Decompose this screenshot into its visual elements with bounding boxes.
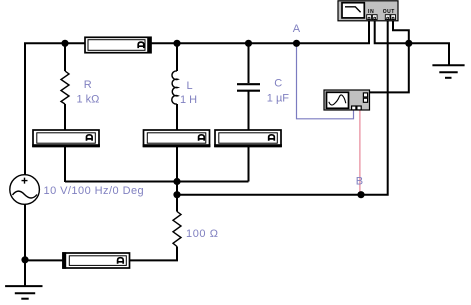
wire: bottom rail right segment xyxy=(130,247,177,261)
junction dot (R top) xyxy=(61,40,68,47)
svg-text:100 Ω: 100 Ω xyxy=(186,228,219,240)
wire: R branch top xyxy=(64,43,66,71)
bode terminal IN+ xyxy=(367,15,372,20)
ammeter top (horizontal, bar right) xyxy=(85,37,151,54)
wire: C branch top xyxy=(248,43,250,83)
ac source V1 xyxy=(10,175,40,205)
scope terminal right top xyxy=(363,93,367,97)
bode terminal OUT- xyxy=(391,15,396,20)
wire: lower bus joining R,L,C branches xyxy=(65,181,249,183)
wire: bottom rail left segment xyxy=(25,259,63,261)
wire: R branch ammeter to bus xyxy=(64,147,66,183)
junction dot (node A) xyxy=(293,40,300,47)
svg-text:1 kΩ: 1 kΩ xyxy=(77,93,100,105)
ground (right) xyxy=(432,65,464,78)
wire: Bode IN- down to right ground rail xyxy=(375,20,449,65)
wire: left lower vertical from source to bottom rail xyxy=(24,204,26,260)
resistor R xyxy=(61,71,69,104)
wire: pink scope channel B down to node B xyxy=(359,110,361,195)
bode terminal IN- xyxy=(372,15,377,20)
wire: node B net from 100 ohm junction right and up to Bode OUT+ xyxy=(177,20,388,195)
junction dot (ground rail / scope) xyxy=(405,40,412,47)
inductor L xyxy=(172,71,178,104)
junction dot (L top) xyxy=(173,40,180,47)
wire: vertical from bus to 100 ohm resistor xyxy=(176,182,178,212)
wire: L branch to ammeter xyxy=(176,104,178,130)
junction dot (node B / scope pink wire) xyxy=(357,191,364,198)
wire: C branch to ammeter xyxy=(248,92,250,131)
oscilloscope XSC1 xyxy=(324,90,370,110)
wire: left vertical + top rail (node A net) + rise to Bode IN+ xyxy=(25,20,369,175)
wire: C branch ammeter to bus xyxy=(248,147,250,182)
ammeter bottom (bar left) xyxy=(62,252,129,269)
junction dot (source bottom / ground) xyxy=(21,256,28,263)
wire: L branch ammeter to bus xyxy=(176,147,178,183)
wire: ground stem under source xyxy=(24,260,26,286)
capacitor C xyxy=(237,84,260,91)
junction dot (C top) xyxy=(245,40,252,47)
svg-text:R: R xyxy=(84,79,92,91)
bode terminal OUT+ xyxy=(385,15,390,20)
wire: R branch to ammeter xyxy=(64,104,66,130)
wire: blue scope channel A from node A xyxy=(297,44,354,119)
svg-text:L: L xyxy=(187,80,193,92)
ground (left, under source) xyxy=(5,286,42,299)
ammeter C branch (bar bottom) xyxy=(214,130,282,147)
scope terminal bottom A xyxy=(352,106,356,110)
ammeter L branch (bar bottom) xyxy=(143,130,211,147)
scope terminal right bottom xyxy=(363,98,367,102)
scope terminal bottom B xyxy=(357,106,361,110)
wire: L branch top xyxy=(176,43,178,71)
svg-text:IN: IN xyxy=(368,9,375,15)
svg-text:A: A xyxy=(293,23,301,35)
junction dot (bus / L branch) xyxy=(173,178,180,185)
svg-text:1 H: 1 H xyxy=(180,94,197,106)
svg-text:1 µF: 1 µF xyxy=(267,92,290,104)
wire: Bode OUT- jog to ground rail xyxy=(393,20,409,43)
svg-text:OUT: OUT xyxy=(383,9,395,15)
ammeter R branch (bar bottom) xyxy=(32,130,100,147)
junction dot (node B bus) xyxy=(173,191,180,198)
svg-text:10 V/100 Hz/0 Deg: 10 V/100 Hz/0 Deg xyxy=(44,185,145,197)
wire: ground rail down to oscilloscope top terminal xyxy=(368,43,409,92)
svg-text:B: B xyxy=(356,176,363,188)
bode plotter XBP1 xyxy=(338,1,398,21)
resistor 100 ohm xyxy=(173,212,181,247)
svg-text:C: C xyxy=(274,78,282,90)
